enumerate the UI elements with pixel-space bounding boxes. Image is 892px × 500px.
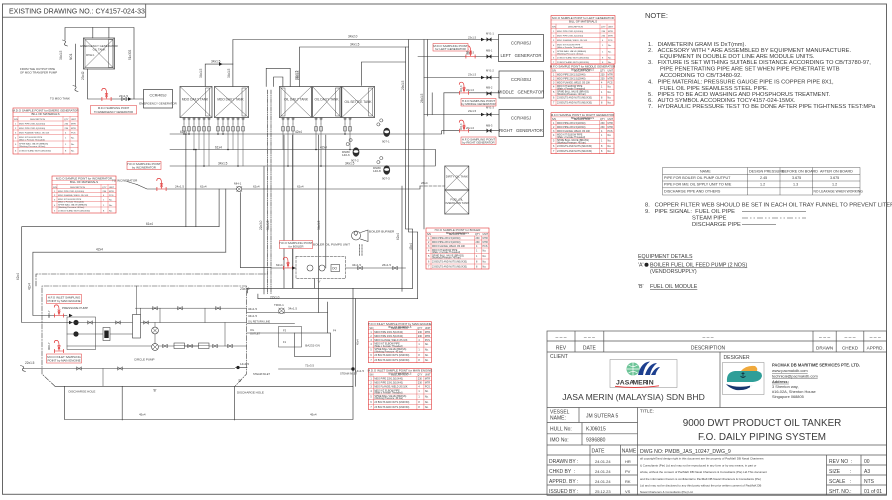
valve star near BA232 [279, 308, 285, 314]
boiler oil pumps unit dashed box [296, 257, 346, 279]
svg-text:BILL OF MATERIALS: BILL OF MATERIALS [388, 326, 411, 329]
svg-text:DISCHARGE PIPE: DISCHARGE PIPE [692, 222, 741, 228]
svg-text:BOILER FUEL OIL FEED PUMP (2 N: BOILER FUEL OIL FEED PUMP (2 NOS) [650, 263, 747, 269]
svg-text:FUEL OIL MODULE: FUEL OIL MODULE [650, 284, 698, 290]
svg-text:OUTLET: OUTLET [250, 332, 261, 336]
svg-text:45x4: 45x4 [409, 243, 413, 250]
svg-text:23x42: 23x42 [81, 71, 85, 80]
svg-text:REV: REV [556, 346, 567, 352]
svg-text:A3: A3 [864, 469, 870, 475]
svg-text:MDO PIPE 23X1.5(10X40): MDO PIPE 23X1.5(10X40) [58, 191, 84, 193]
red label: MDO sampling point to emergency generator [91, 106, 137, 115]
svg-text:34x1.5: 34x1.5 [59, 50, 63, 60]
svg-text:MH12-1: MH12-1 [86, 54, 95, 57]
svg-text:MER: MER [633, 380, 648, 387]
wire: left gen lower feed [418, 56, 499, 58]
svg-text:'D': 'D' [238, 379, 242, 383]
existing drawing number box [3, 4, 146, 17]
svg-text:000-3: 000-3 [460, 123, 463, 130]
svg-text:MTR: MTR [71, 123, 76, 125]
svg-text:– – –: – – – [584, 335, 595, 341]
svg-text:34x1.5: 34x1.5 [227, 68, 231, 78]
svg-text:000-7: 000-7 [47, 342, 51, 350]
svg-text:MTR: MTR [109, 191, 114, 193]
svg-text:23x1.5: 23x1.5 [119, 94, 128, 98]
wire: oil tanks top feed [300, 47, 409, 87]
svg-text:34x1.5: 34x1.5 [288, 307, 297, 311]
svg-text:62x4: 62x4 [16, 273, 20, 280]
tank: oil settle tank [342, 87, 375, 118]
svg-text:BILL OF MATERIALS: BILL OF MATERIALS [571, 68, 594, 71]
svg-text:JASA MERIN (MALAYSIA) SDN BHD: JASA MERIN (MALAYSIA) SDN BHD [562, 392, 705, 402]
svg-text:– – –: – – – [844, 335, 855, 341]
svg-text:PIPE FOR M/E OIL SPPLY UNIT TO: PIPE FOR M/E OIL SPPLY UNIT TO M/E [664, 183, 732, 187]
svg-text:45x4: 45x4 [356, 339, 360, 345]
svg-text:SHT. NO.:: SHT. NO.: [829, 489, 852, 495]
svg-text:1.2: 1.2 [760, 183, 765, 187]
svg-text:140-6: 140-6 [342, 153, 350, 157]
svg-text:'B': 'B' [153, 389, 157, 393]
svg-text:01 of 01: 01 of 01 [864, 489, 882, 495]
svg-text:IMO No:: IMO No: [550, 438, 569, 444]
svg-text:42x4: 42x4 [96, 248, 103, 252]
svg-text:AFTER ON BOARD: AFTER ON BOARD [820, 170, 853, 174]
svg-text:OIL SETTLE TANK: OIL SETTLE TANK [344, 100, 372, 104]
svg-text:CCR/40SJ: CCR/40SJ [511, 77, 531, 82]
svg-text:23x1.5: 23x1.5 [468, 73, 477, 77]
pump: transfer pump 907-1 [383, 128, 390, 137]
svg-text:MB-1: MB-1 [486, 49, 493, 53]
svg-text:62x4: 62x4 [396, 233, 400, 240]
svg-text:NAME: NAME [700, 170, 711, 174]
svg-text:DIRTY OIL TANK: DIRTY OIL TANK [446, 175, 468, 179]
svg-text:3. FIXTURE IS SET WITHING SU: 3. FIXTURE IS SET WITHING SUITABLE DISTA… [648, 60, 871, 66]
svg-text:TO EMERGENCY GENERATOR: TO EMERGENCY GENERATOR [94, 110, 133, 114]
svg-text:61x4: 61x4 [215, 146, 222, 150]
pressure test table [663, 168, 861, 196]
svg-text:CLIENT: CLIENT [550, 354, 568, 360]
svg-text:– – –: – – – [702, 335, 713, 341]
svg-text:BILL OF MATERIALS: BILL OF MATERIALS [571, 117, 594, 120]
svg-text:14x1.5: 14x1.5 [240, 362, 249, 366]
svg-text:907-3: 907-3 [382, 177, 390, 181]
svg-text:61x4: 61x4 [180, 130, 187, 134]
svg-text:24x1.5: 24x1.5 [175, 185, 184, 189]
svg-text:MDO FLANGE; WELD JIS 10K: MDO FLANGE; WELD JIS 10K [557, 39, 588, 42]
svg-text:QTY: QTY [64, 119, 69, 121]
designer logo box [723, 363, 765, 395]
svg-text:S/N: S/N [53, 187, 57, 189]
svg-text:No.: No. [71, 138, 75, 140]
row lines [547, 340, 887, 342]
svg-text:OIL DAILY TANK: OIL DAILY TANK [284, 98, 309, 102]
svg-text:PRESSURE PUMP: PRESSURE PUMP [62, 306, 88, 310]
svg-text:CHKD BY :: CHKD BY : [549, 469, 575, 475]
client logo box [610, 360, 677, 388]
svg-text:PIPE PENETRATING PIPE ARE SET: PIPE PENETRATING PIPE ARE SET WHEN PIPE … [660, 67, 840, 73]
svg-text:(Working Pressure: 40 bar): (Working Pressure: 40 bar) [58, 206, 84, 209]
wire: suction riser x=226 [225, 189, 227, 252]
svg-text:MDO PIPE 23X1.5(10X40): MDO PIPE 23X1.5(10X40) [557, 35, 583, 37]
copyright small print [640, 457, 767, 495]
svg-text:62x4: 62x4 [276, 263, 283, 267]
svg-text:140-8: 140-8 [373, 169, 381, 173]
wire: bottom long horizontals [248, 287, 413, 289]
svg-text:– – –: – – – [819, 335, 830, 341]
svg-text:62x4: 62x4 [200, 185, 207, 189]
vessel info [550, 409, 654, 444]
generator box: middle [499, 71, 544, 98]
svg-text:9396880: 9396880 [586, 438, 606, 444]
svg-text:'B': 'B' [638, 284, 644, 290]
wire: module boundary long pair (double dot dash) [267, 90, 269, 294]
svg-text:– – –: – – – [555, 335, 566, 341]
svg-text:22x1.0: 22x1.0 [270, 296, 280, 300]
svg-text:26x1.5: 26x1.5 [420, 93, 424, 103]
svg-text:00: 00 [864, 459, 870, 465]
svg-text:3.675: 3.675 [830, 176, 839, 180]
wire: main top run to left generator [233, 40, 499, 87]
red table: boiler BOM [426, 228, 489, 269]
client/designer divider [719, 352, 721, 408]
svg-text:for BOILER: for BOILER [288, 245, 303, 249]
svg-text:(Working Pressure: 40 bar): (Working Pressure: 40 bar) [19, 145, 45, 148]
svg-text:STEAM INLET: STEAM INLET [253, 372, 270, 376]
svg-text:S/N: S/N [552, 26, 556, 28]
red label: sampling point by middle generator [461, 99, 496, 107]
tank: emergency generator oil tank [84, 38, 115, 69]
wire: riser x=240 to boiler feed [240, 193, 271, 268]
svg-text:23x1.5: 23x1.5 [468, 36, 477, 40]
svg-text:61x4: 61x4 [146, 222, 153, 226]
wire: burner drop [359, 245, 361, 257]
svg-text:RK: RK [625, 479, 631, 484]
svg-text:22x3.0: 22x3.0 [259, 220, 263, 230]
svg-text:62x4: 62x4 [253, 185, 260, 189]
red table: incinerator BOM [52, 176, 116, 213]
red table: right generator BOM [551, 113, 615, 154]
date/name rows [589, 445, 591, 495]
svg-text:72x3.5: 72x3.5 [305, 364, 314, 368]
svg-text:24.01.24: 24.01.24 [595, 479, 611, 484]
svg-text:MDO PIPE 23X1.5(10X40): MDO PIPE 23X1.5(10X40) [19, 128, 45, 130]
svg-text:No.: No. [71, 150, 75, 152]
tank drop lines to buses [184, 124, 350, 288]
svg-text:23 BOLTS AND NUTS (M10X30): 23 BOLTS AND NUTS (M10X30) [557, 56, 589, 59]
svg-text:(Working Pressure: 40 bar): (Working Pressure: 40 bar) [557, 52, 583, 55]
titleblock header texts [550, 335, 884, 362]
svg-text:LEFT GENERATOR: LEFT GENERATOR [501, 53, 542, 58]
svg-text:8. COPPER FILTER WEB SHOULD: 8. COPPER FILTER WEB SHOULD BE SET IN EA… [645, 203, 892, 209]
wire: middle column verticals [263, 167, 265, 295]
JASAMERIN logo mark [627, 363, 640, 376]
module small valves [153, 307, 157, 310]
tank outlet flange row (second row of symbols) [183, 127, 352, 132]
svg-text:42x4: 42x4 [28, 283, 32, 290]
module inlet arrows [69, 314, 73, 318]
svg-text:26x1.5: 26x1.5 [382, 263, 391, 267]
svg-text:MB-2: MB-2 [486, 86, 493, 90]
svg-text:34x1.5: 34x1.5 [211, 60, 221, 64]
svg-text:45x4: 45x4 [310, 413, 317, 417]
svg-text:MTR: MTR [608, 35, 613, 37]
svg-text:BOILER OIL PUMPS UNIT: BOILER OIL PUMPS UNIT [313, 243, 350, 247]
svg-text:DRAWN: DRAWN [816, 346, 833, 351]
rev/size block [826, 455, 828, 495]
svg-text:34x1.5: 34x1.5 [345, 162, 355, 166]
svg-text:MY1-2: MY1-2 [486, 69, 494, 73]
svg-text:HR: HR [625, 459, 631, 464]
wire: right gen feeds [424, 114, 499, 116]
svg-text:M.D.O SAMPLING POINT: M.D.O SAMPLING POINT [98, 106, 130, 110]
svg-text:(Male x Female Threaded): (Male x Female Threaded) [58, 200, 84, 203]
svg-text:2.45: 2.45 [760, 176, 767, 180]
svg-text:MDO FLANGE; WELD JIS 10K: MDO FLANGE; WELD JIS 10K [19, 131, 50, 134]
svg-text:20x1.0: 20x1.0 [466, 126, 475, 130]
svg-text:PV: PV [625, 469, 631, 474]
wire: dashed line to overflow tank [420, 185, 445, 187]
svg-text:22x1.5: 22x1.5 [25, 361, 35, 365]
red table helper: generator tables (left/middle/right) [551, 16, 615, 65]
svg-text:by MIDDLE GENERATOR: by MIDDLE GENERATOR [461, 102, 495, 106]
svg-text:DISCHARGE PIPE AND OTHERS: DISCHARGE PIPE AND OTHERS [664, 190, 721, 194]
red table: MDO inlet main engine BOM [368, 369, 433, 410]
svg-text:3.675: 3.675 [792, 176, 801, 180]
svg-text:NTS: NTS [864, 479, 875, 485]
heater tall rect [133, 315, 141, 339]
svg-text:(Male x Female Threaded): (Male x Female Threaded) [19, 139, 45, 142]
steam inlet black dot [351, 367, 354, 370]
svg-text:34x1.5: 34x1.5 [350, 43, 360, 47]
svg-text:NOTE:: NOTE: [645, 11, 668, 20]
svg-text:POINT by MAIN ENGINE: POINT by MAIN ENGINE [47, 359, 80, 363]
svg-text:N: N [649, 380, 654, 387]
svg-text:33x1.0: 33x1.0 [466, 88, 475, 92]
svg-text:NAME:: NAME: [550, 416, 566, 422]
svg-text:MB-3: MB-3 [486, 124, 493, 128]
svg-text:OIL RETURN LINE: OIL RETURN LINE [248, 320, 270, 324]
svg-text:SIZE :: SIZE : [829, 469, 851, 475]
svg-text:DESIGN PRESSURE: DESIGN PRESSURE [749, 170, 785, 174]
svg-text:42x4: 42x4 [295, 130, 302, 134]
svg-text:technical@pacmakdb.com: technical@pacmakdb.com [772, 374, 818, 379]
red label: MDO inlet sampling point by main engine [47, 354, 82, 363]
svg-text:REV NO :: REV NO : [829, 459, 852, 465]
wire: emergency tank bottom to gen box [88, 69, 144, 99]
designer texts [772, 363, 860, 399]
pipe labels scattered [16, 35, 424, 384]
svg-text:Naval Charterers & Consultants: Naval Charterers & Consultants (Pte) Ltd… [640, 490, 694, 494]
svg-text:MDO PIPE 23X1.5(10X40): MDO PIPE 23X1.5(10X40) [19, 123, 45, 125]
svg-text:TITLE:: TITLE: [640, 409, 654, 414]
svg-text:TO MGO TANK: TO MGO TANK [50, 97, 70, 101]
svg-text:& Consultants (Pte) Ltd and ma: & Consultants (Pte) Ltd and may not be r… [640, 463, 756, 467]
svg-text:www.pacmakdb.com: www.pacmakdb.com [772, 368, 808, 373]
svg-text:TO INCINERATOR: TO INCINERATOR [112, 179, 138, 183]
svg-text:34x1.5: 34x1.5 [248, 314, 257, 318]
svg-text:UNIT: UNIT [608, 26, 614, 28]
svg-text:EQUIPMENT DETAILS: EQUIPMENT DETAILS [638, 254, 693, 260]
svg-text:MTR: MTR [608, 31, 613, 33]
wire: vertical x402 [401, 186, 403, 291]
BA232-GN box [295, 333, 331, 357]
wire: long suction line y=252 [33, 252, 226, 315]
svg-text:26x4: 26x4 [421, 181, 428, 185]
svg-text:for LEFT GENERATOR: for LEFT GENERATOR [435, 47, 466, 51]
svg-text:CIRCLE PUMP: CIRCLE PUMP [134, 358, 155, 362]
svg-text:ISSUED BY :: ISSUED BY : [549, 489, 578, 495]
wire: BA232 connections [247, 312, 328, 314]
svg-text:PIPE FOR BOILER OIL PUMP OUTPU: PIPE FOR BOILER OIL PUMP OUTPUT [664, 176, 731, 180]
svg-text:OIL: OIL [250, 328, 255, 332]
red label: HFO sampling point for boiler [279, 241, 313, 249]
valve on emergency feed [122, 97, 126, 100]
svg-text:000-3: 000-3 [460, 85, 463, 92]
svg-text:BEFORE ON BOARD: BEFORE ON BOARD [782, 170, 818, 174]
svg-text:(VENDORSUPPLY): (VENDORSUPPLY) [650, 269, 697, 275]
svg-text:62x4: 62x4 [297, 185, 304, 189]
svg-text:MY1-1: MY1-1 [486, 32, 494, 36]
svg-text:No.: No. [71, 144, 75, 146]
wire: tank outlet bus lines [170, 131, 499, 134]
svg-text:000-7: 000-7 [47, 310, 51, 318]
svg-text:CHEKD: CHEKD [842, 346, 859, 351]
svg-text:DRAWN BY :: DRAWN BY : [549, 459, 578, 465]
svg-text:DESCRIPTION: DESCRIPTION [70, 187, 85, 189]
svg-text:45x4: 45x4 [139, 413, 146, 417]
wire: bottom discharge rectangle [55, 385, 353, 387]
svg-text:whole, without the consent of: whole, without the consent of PacMaK DB … [640, 470, 767, 474]
svg-text:NO LEAKAGE WHEN WORKING: NO LEAKAGE WHEN WORKING [814, 190, 864, 194]
vessel rows [547, 422, 638, 424]
svg-text:BILL OF MATERIALS: BILL OF MATERIALS [388, 373, 411, 376]
svg-text:F.O. DAILY PIPING SYSTEM: F.O. DAILY PIPING SYSTEM [698, 432, 826, 443]
svg-text:DATE: DATE [583, 346, 597, 352]
wire: suction riser x=219 [218, 189, 220, 227]
wire: discharge drop pair [355, 299, 357, 387]
tank: MDO daily tank 2 [215, 87, 249, 118]
svg-text:34x1.5: 34x1.5 [352, 263, 361, 267]
svg-text:BA232-GN: BA232-GN [305, 344, 320, 348]
svg-text:PACMAK DB MARITIME SERVICES PT: PACMAK DB MARITIME SERVICES PTE. LTD. [772, 363, 860, 368]
svg-text:RIGHT GENERATOR: RIGHT GENERATOR [499, 128, 543, 133]
wire: long suction line y=227 [22, 227, 219, 323]
svg-text:BOILER BURNER: BOILER BURNER [369, 230, 395, 234]
svg-text:CCR/40SJ: CCR/40SJ [150, 94, 167, 98]
svg-text:29x1.5: 29x1.5 [401, 80, 405, 90]
red label: HFO sampling point by incinerator [127, 162, 161, 170]
wire: steam line out of module [279, 368, 354, 370]
svg-text:OF MGO TRANSFER PUMP: OF MGO TRANSFER PUMP [20, 71, 57, 75]
svg-text:MDO DAILY TANK: MDO DAILY TANK [182, 98, 209, 102]
red label: HFO inlet sampling point by main engine [47, 295, 82, 304]
svg-text:DISCHARGE HOLE: DISCHARGE HOLE [69, 390, 96, 394]
svg-text:all copyright©and design right: all copyright©and design right in this d… [640, 457, 764, 461]
tank: oil daily tank 1 [280, 87, 312, 118]
svg-text:DESCRIPTION: DESCRIPTION [691, 346, 726, 352]
wire: mdo tank feed [205, 64, 233, 86]
pump: transfer pump 907-2 [353, 147, 360, 156]
svg-text:9. PIPE SIGNAL: FUEL OIL PI: 9. PIPE SIGNAL: FUEL OIL PIPE [645, 209, 735, 215]
svg-text:23x1.5: 23x1.5 [468, 109, 477, 113]
svg-text:(Male x Female Threaded): (Male x Female Threaded) [557, 46, 583, 49]
svg-text:PCS: PCS [608, 40, 613, 42]
svg-text:907-1: 907-1 [382, 140, 390, 144]
svg-text:DATE: DATE [592, 449, 606, 455]
svg-text:7. HYDRAULIC PRESSURE TEST T: 7. HYDRAULIC PRESSURE TEST TO BE DONE AF… [648, 104, 876, 110]
red candies at module inlets [54, 305, 63, 317]
svg-text:1.3: 1.3 [793, 183, 798, 187]
tank: MDO daily tank 1 [180, 87, 212, 118]
tank outlet valve rows (mdo tank1) [183, 118, 351, 124]
svg-text:SCALE :: SCALE : [829, 479, 851, 485]
svg-text:PCS: PCS [71, 132, 76, 134]
svg-text:34x1.5: 34x1.5 [199, 68, 203, 78]
red table: HFO inlet main engine BOM [368, 322, 431, 363]
wire: boiler feed line [271, 267, 296, 269]
svg-text:24.01.24: 24.01.24 [595, 459, 611, 464]
svg-text:MDO DAILY TANK: MDO DAILY TANK [217, 98, 244, 102]
svg-text:by INCINERATOR: by INCINERATOR [132, 166, 156, 170]
pump: transfer pump 907-3 [383, 165, 390, 174]
svg-text:DESCRIPTION: DESCRIPTION [568, 26, 583, 28]
svg-text:No.: No. [608, 51, 612, 53]
svg-text:24.01.24: 24.01.24 [595, 469, 611, 474]
generator box: left [499, 35, 544, 62]
wire: emergency tank top feed [108, 28, 110, 39]
wire: bus drop x=190 [195, 150, 197, 227]
svg-text:'A': 'A' [638, 263, 644, 269]
wire: boiler unit bottom drop [314, 279, 316, 289]
svg-text:POINT by MAIN ENGINE: POINT by MAIN ENGINE [47, 299, 80, 303]
generator box: emergency [144, 90, 173, 109]
filter cylinder [103, 328, 110, 341]
svg-text:QTY: QTY [601, 26, 606, 28]
wire: nested loop near oil tank3 [266, 68, 290, 86]
svg-text:UNIT: UNIT [109, 187, 115, 189]
wire: incinerator/suction line y=189 [137, 185, 420, 190]
svg-text:MH-1: MH-1 [234, 182, 242, 186]
tank: oil daily tank 2 [313, 87, 342, 118]
wire: settle tank top step [361, 62, 405, 86]
svg-text:CCR/40SJ: CCR/40SJ [511, 41, 531, 46]
svg-text:Singapore 068805: Singapore 068805 [772, 394, 804, 399]
svg-text:23x1.5: 23x1.5 [240, 287, 250, 291]
svg-text:OIL TANK: OIL TANK [93, 48, 106, 52]
svg-text:25.12.23: 25.12.23 [595, 489, 611, 494]
svg-text:UNIT: UNIT [71, 119, 77, 121]
svg-text:Ltd and may not be disclosed t: Ltd and may not be disclosed to any thir… [640, 484, 761, 488]
wire: left supply vertical [75, 44, 77, 86]
svg-text:EXISTING DRAWING NO.: CY4157-0: EXISTING DRAWING NO.: CY4157-024-33 [9, 8, 145, 15]
svg-text:STEAM INLET: STEAM INLET [340, 372, 357, 376]
svg-text:29x1.5: 29x1.5 [295, 70, 299, 80]
svg-text:DESIGNER: DESIGNER [724, 355, 751, 361]
svg-text:1.2: 1.2 [832, 183, 837, 187]
svg-text:34x1.5: 34x1.5 [248, 307, 257, 311]
junction dots [183, 133, 351, 167]
svg-text:EMERGENCY GENERATOR: EMERGENCY GENERATOR [139, 102, 176, 106]
svg-text:MDO PIPE 23X1.5(10X40): MDO PIPE 23X1.5(10X40) [557, 31, 583, 33]
svg-text:VS: VS [625, 489, 631, 494]
svg-text:DWG NO: PMDB_JAS_10247_DWG_9: DWG NO: PMDB_JAS_10247_DWG_9 [640, 449, 731, 455]
svg-text:9000 DWT PRODUCT OIL TANKER: 9000 DWT PRODUCT OIL TANKER [683, 418, 842, 429]
svg-text:OVERFLOW TANK: OVERFLOW TANK [444, 201, 469, 205]
red table: middle generator BOM [550, 64, 616, 105]
svg-text:JM SUTERA 5: JM SUTERA 5 [586, 414, 618, 420]
svg-text:4. PIPE MATERIAL: PRESSURE G: 4. PIPE MATERIAL: PRESSURE GAUGE PIPE IS… [648, 80, 834, 86]
svg-text:34x2.0: 34x2.0 [348, 35, 358, 39]
